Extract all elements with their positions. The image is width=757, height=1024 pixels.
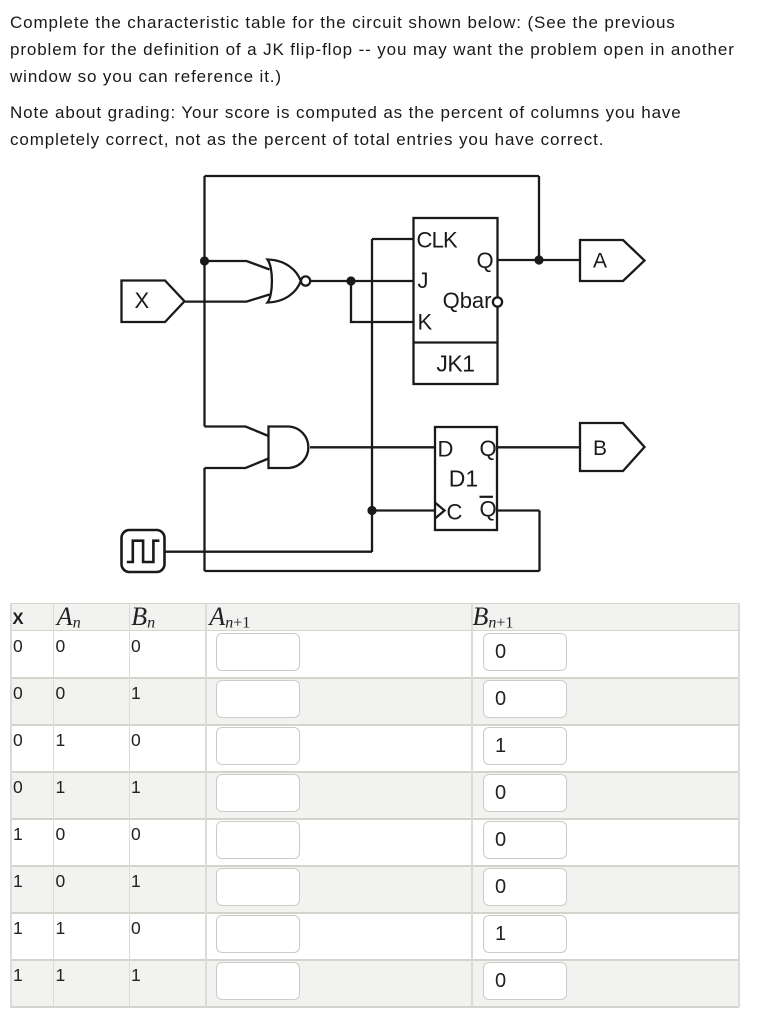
svg-text:D1: D1 xyxy=(449,466,478,492)
svg-text:CLK: CLK xyxy=(417,228,459,253)
svg-text:K: K xyxy=(418,310,433,335)
svg-text:D: D xyxy=(438,437,454,462)
svg-text:Q: Q xyxy=(477,248,494,273)
svg-text:J: J xyxy=(418,268,429,293)
svg-text:C: C xyxy=(447,500,463,525)
svg-text:A: A xyxy=(593,250,607,273)
svg-text:Q: Q xyxy=(480,436,497,461)
svg-text:Q: Q xyxy=(480,497,497,522)
svg-text:X: X xyxy=(135,288,150,313)
svg-text:Qbar: Qbar xyxy=(443,288,492,313)
svg-text:JK1: JK1 xyxy=(436,351,474,377)
svg-text:B: B xyxy=(593,437,607,460)
